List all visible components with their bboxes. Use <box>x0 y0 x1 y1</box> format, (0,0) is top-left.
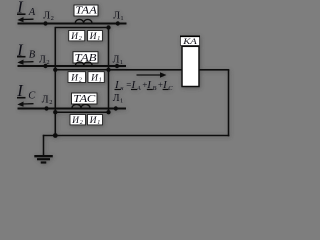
wire phase B <box>18 65 127 67</box>
junction dot L1 row3 <box>114 106 118 110</box>
svg-text:1: 1 <box>120 15 123 22</box>
junction dot L2 row1 <box>43 21 47 25</box>
svg-text:н: н <box>120 85 123 92</box>
secondary wire row2 <box>55 69 108 71</box>
ground bar 3 <box>41 161 47 163</box>
svg-text:1: 1 <box>97 120 100 126</box>
secondary wire row3 <box>55 111 108 113</box>
svg-text:И: И <box>71 116 80 126</box>
svg-text:2: 2 <box>80 120 83 126</box>
junction dot bottom left bus <box>53 133 58 138</box>
formula underlines <box>115 89 169 91</box>
terminal label I2 row1 <box>69 31 85 43</box>
svg-text:1: 1 <box>97 36 100 42</box>
svg-text:И: И <box>70 73 79 83</box>
relay KA label box <box>180 36 200 46</box>
terminal label I1 row3 <box>88 115 103 127</box>
svg-text:2: 2 <box>51 15 54 22</box>
svg-text:ТАА: ТАА <box>75 6 98 17</box>
underline of I_B <box>17 56 26 58</box>
svg-text:И: И <box>90 73 99 83</box>
junction dot L2 row2 <box>43 64 47 68</box>
svg-text:Л: Л <box>113 55 120 66</box>
svg-text:B: B <box>29 50 36 61</box>
svg-text:И: И <box>89 32 98 42</box>
junction dot secondary right row1 <box>106 25 110 29</box>
svg-text:A: A <box>28 7 36 18</box>
junction dot secondary left row3 <box>53 110 57 114</box>
svg-text:1: 1 <box>120 98 123 105</box>
wire left bus (I2 terminals) <box>54 27 56 136</box>
wire relay to right bus <box>199 69 229 71</box>
terminal label I2 row3 <box>70 115 86 127</box>
transformer TAC label box <box>72 93 98 105</box>
transformer TAB primary winding bumps <box>76 62 93 66</box>
formula arrow <box>137 72 167 77</box>
wire to ground <box>43 135 45 156</box>
svg-text:C: C <box>28 91 36 102</box>
wire bottom return <box>43 135 230 137</box>
underline of I_C <box>17 97 26 99</box>
transformer TAA primary winding bumps <box>75 19 92 23</box>
svg-text:И: И <box>70 32 79 42</box>
svg-text:2: 2 <box>79 36 82 42</box>
junction dot L1 row1 <box>116 21 120 25</box>
svg-text:С: С <box>168 85 173 92</box>
ground bar 1 <box>34 155 53 157</box>
svg-text:Л: Л <box>39 55 46 66</box>
svg-text:1: 1 <box>99 78 102 84</box>
wire right bus (I1 terminals) <box>108 27 110 112</box>
svg-text:2: 2 <box>79 78 82 84</box>
secondary wire row1 <box>55 27 108 29</box>
current arrow phase B <box>17 60 33 65</box>
junction dot L1 row2 <box>115 64 119 68</box>
junction dot L2 row3 <box>44 106 48 110</box>
svg-text:ТАС: ТАС <box>73 94 95 105</box>
svg-text:Л: Л <box>43 11 50 22</box>
wire phase C <box>18 108 127 110</box>
underline of I_A <box>17 13 26 15</box>
junction dot secondary left row2 <box>53 68 57 72</box>
svg-text:2: 2 <box>49 99 52 106</box>
current arrow phase C <box>17 102 33 107</box>
relay KA coil <box>182 46 199 86</box>
svg-text:Л: Л <box>113 10 120 21</box>
formula I_n = I_A + I_B + I_C <box>114 79 173 92</box>
terminal label I2 row2 <box>68 72 86 84</box>
svg-text:Л: Л <box>113 93 120 104</box>
svg-text:В: В <box>153 85 157 92</box>
ground bar 2 <box>37 158 50 160</box>
svg-text:Л: Л <box>42 94 49 105</box>
current arrow phase A <box>17 17 33 22</box>
wire to relay <box>109 69 183 71</box>
svg-text:И: И <box>89 116 98 126</box>
terminal label I1 row1 <box>88 31 103 43</box>
junction dot secondary right row3 <box>106 110 110 114</box>
wire right return <box>228 70 230 137</box>
svg-text:КА: КА <box>182 36 198 46</box>
svg-text:А: А <box>136 85 141 92</box>
wire phase A <box>18 23 127 25</box>
transformer TAA label box <box>74 5 98 17</box>
junction dot secondary right row2 <box>106 68 110 72</box>
transformer TAC primary winding bumps <box>72 104 90 108</box>
svg-text:1: 1 <box>120 59 123 66</box>
transformer TAB label box <box>73 52 98 64</box>
terminal label I1 row2 <box>88 72 104 84</box>
